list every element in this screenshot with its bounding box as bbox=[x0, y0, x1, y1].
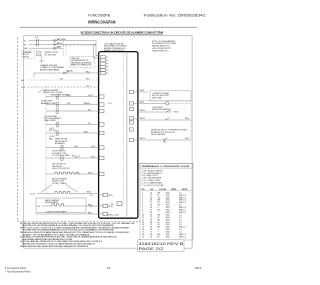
svg-text:19: 19 bbox=[142, 237, 144, 239]
svg-text:GY-1: GY-1 bbox=[74, 146, 78, 148]
relay contact on y73 bbox=[63, 72, 65, 74]
dashed separator right bbox=[139, 99, 191, 101]
svg-text:V-2: V-2 bbox=[88, 123, 91, 125]
svg-text:RD-8: RD-8 bbox=[88, 172, 92, 174]
svg-text:BK-9: BK-9 bbox=[88, 212, 92, 214]
power wire GND row bbox=[24, 45, 63, 50]
cooling fan note bbox=[44, 115, 62, 122]
console dashed boundary bottom bbox=[17, 221, 141, 223]
svg-text:W-11: W-11 bbox=[185, 118, 189, 120]
wire bend into board connector bbox=[95, 41, 97, 56]
svg-text:DE LA CAVIDAD: DE LA CAVIDAD bbox=[151, 133, 166, 136]
legend column headers bbox=[142, 188, 188, 191]
svg-text:HIGH LIMIT: HIGH LIMIT bbox=[152, 97, 163, 99]
legend table rows bbox=[142, 192, 186, 238]
fan-out diagonals bbox=[41, 185, 52, 193]
svg-text:BK/W-5: BK/W-5 bbox=[84, 103, 90, 105]
board inner dotted rail bbox=[122, 53, 124, 203]
probe note bbox=[55, 138, 68, 145]
svg-text:P2: P2 bbox=[106, 60, 108, 62]
svg-text:METAL IN APPLIANCE: METAL IN APPLIANCE bbox=[40, 68, 60, 71]
notes right of title bbox=[152, 40, 177, 53]
wire drops to note box bbox=[63, 41, 65, 56]
right wire row 1 bbox=[139, 90, 148, 92]
svg-text:BK-9: BK-9 bbox=[140, 102, 144, 104]
right note box 1 bbox=[150, 91, 191, 101]
svg-text:WIRE IN CONNECTION: WIRE IN CONNECTION bbox=[71, 65, 92, 67]
ground lead bbox=[41, 56, 43, 61]
svg-text:GY-1: GY-1 bbox=[91, 146, 95, 148]
svg-text:SE DEBE CONECTAR A UN CIRCUITO: SE DEBE CONECTAR A UN CIRCUITO DE ALAMBR… bbox=[81, 31, 164, 35]
svg-text:P4(1): P4(1) bbox=[108, 195, 113, 197]
svg-text:BK-1: BK-1 bbox=[86, 71, 90, 73]
bake coil row bbox=[37, 204, 99, 208]
svg-text:BK-12: BK-12 bbox=[140, 138, 145, 140]
board left pin boxes bbox=[99, 95, 104, 176]
right wire row 4 bbox=[139, 118, 191, 120]
svg-text:W-5: W-5 bbox=[67, 103, 70, 105]
svg-text:* Non-Illustrated Parts: * Non-Illustrated Parts bbox=[5, 270, 31, 274]
svg-text:105C: 105C bbox=[166, 237, 171, 239]
board right pin boxes bbox=[129, 90, 133, 141]
svg-text:PK-2: PK-2 bbox=[91, 156, 95, 158]
anti-tip note bbox=[38, 90, 43, 94]
svg-text:UNLOCK POSITION: UNLOCK POSITION bbox=[52, 168, 70, 170]
svg-text:P5: P5 bbox=[106, 70, 108, 72]
legend table box bbox=[140, 164, 193, 241]
stubs from right pins through edge bbox=[134, 92, 140, 140]
svg-text:P4: P4 bbox=[106, 67, 108, 69]
ground symbol bbox=[39, 61, 43, 63]
svg-text:L1-N: L1-N bbox=[30, 193, 35, 195]
svg-text:W: W bbox=[158, 237, 160, 239]
right wire row 3 bbox=[139, 110, 178, 114]
connector row 2 bbox=[41, 101, 99, 108]
svg-text:TERMINALES Y CODIGOS DE COLOR: TERMINALES Y CODIGOS DE COLOR bbox=[142, 165, 190, 168]
svg-text:WIRING DIAGRAM: WIRING DIAGRAM bbox=[88, 20, 116, 25]
terminal block dashed box bbox=[22, 50, 35, 58]
latch switch note bbox=[52, 163, 70, 170]
svg-text:DUAL SPEED: DUAL SPEED bbox=[44, 119, 57, 122]
legend notes bbox=[142, 169, 164, 186]
svg-text:P4(2): P4(2) bbox=[108, 206, 113, 208]
svg-text:KIT P/N 5303: KIT P/N 5303 bbox=[45, 54, 56, 56]
svg-text:DLB-BK: DLB-BK bbox=[66, 71, 74, 73]
svg-text:BK-10: BK-10 bbox=[140, 110, 145, 112]
svg-text:FGMC3065PB: FGMC3065PB bbox=[88, 14, 111, 18]
lower element box bbox=[36, 198, 86, 212]
console dashed boundary left bbox=[16, 38, 18, 222]
bottom row wire bbox=[35, 211, 99, 214]
connector row 4 bbox=[46, 122, 99, 127]
svg-text:OR-3: OR-3 bbox=[66, 95, 71, 97]
console dashed boundary top segment bbox=[62, 44, 96, 46]
svg-text:P1: P1 bbox=[106, 57, 108, 59]
board inner solid rail bbox=[126, 53, 128, 217]
connector row 7 with switch bbox=[46, 156, 99, 161]
svg-text:WIRES RATED 90 C: WIRES RATED 90 C bbox=[152, 49, 169, 52]
svg-text:BK-8: BK-8 bbox=[140, 90, 144, 92]
element fan-out note bbox=[52, 178, 68, 184]
svg-text:Publication No. 5995628342: Publication No. 5995628342 bbox=[144, 14, 206, 18]
svg-text:BK-6: BK-6 bbox=[87, 192, 91, 194]
right wire row 2 with motor bbox=[139, 101, 191, 141]
svg-text:PARA EL DISPOSITIVO: PARA EL DISPOSITIVO bbox=[104, 49, 125, 52]
svg-text:1-8: 1-8 bbox=[90, 195, 93, 197]
svg-text:318416210 REV B: 318416210 REV B bbox=[139, 242, 185, 246]
svg-text:OR-3: OR-3 bbox=[88, 95, 93, 97]
svg-text:0613: 0613 bbox=[195, 266, 202, 270]
svg-text:P3: P3 bbox=[106, 63, 108, 65]
right note 2 bbox=[152, 107, 171, 111]
power wire N bbox=[24, 43, 96, 47]
svg-text:P/N 316: P/N 316 bbox=[23, 56, 30, 58]
connector row 6 bbox=[46, 145, 99, 150]
svg-text:P4(3) - L4-N: P4(3) - L4-N bbox=[108, 214, 119, 216]
connector row 1 bbox=[46, 94, 99, 99]
control board outline bbox=[99, 52, 138, 219]
bottom notes block bbox=[20, 222, 135, 248]
svg-text:COLOR: COLOR bbox=[159, 189, 166, 191]
right wire row 5 bbox=[139, 138, 191, 143]
svg-text:W-5: W-5 bbox=[88, 109, 91, 111]
svg-text:DL-W: DL-W bbox=[57, 43, 62, 45]
convection fan note bbox=[49, 136, 55, 140]
svg-text:OUTER - INNER: OUTER - INNER bbox=[52, 183, 67, 185]
svg-text:# Functional Parts: # Functional Parts bbox=[5, 266, 27, 270]
bake element row bbox=[30, 191, 99, 195]
svg-text:MOTOR: MOTOR bbox=[49, 130, 57, 132]
board pin ladder labels bbox=[106, 57, 108, 75]
notes above board bbox=[104, 42, 127, 52]
fuse box bbox=[37, 52, 41, 56]
svg-text:PK-2: PK-2 bbox=[72, 156, 76, 158]
svg-text:BR-4: BR-4 bbox=[84, 131, 88, 133]
svg-text:FAN: FAN bbox=[49, 137, 53, 140]
svg-text:P6: P6 bbox=[106, 73, 108, 75]
svg-text:W-12: W-12 bbox=[185, 138, 189, 140]
board bottom interior pins bbox=[90, 193, 122, 216]
svg-text:CONVECTION ELEMENT: CONVECTION ELEMENT bbox=[45, 211, 68, 213]
header rule bbox=[20, 26, 197, 28]
svg-text:W-10: W-10 bbox=[174, 112, 178, 114]
svg-text:DLCR-BK: DLCR-BK bbox=[57, 39, 66, 41]
main frame bbox=[24, 36, 192, 249]
svg-text:ASSEMBLY: ASSEMBLY bbox=[55, 142, 66, 145]
power wire L1 bbox=[24, 37, 96, 42]
svg-text:WIRING ERRORS CAN CAUSE IMPROP: WIRING ERRORS CAN CAUSE IMPROPER AND DAN… bbox=[20, 245, 89, 248]
part number box bbox=[138, 240, 185, 252]
svg-text:7. V = VIOLET / VIOLETA: 7. V = VIOLET / VIOLETA bbox=[142, 184, 164, 187]
svg-text:CAV: CAV bbox=[57, 45, 62, 48]
connector row 3 bbox=[46, 109, 99, 114]
svg-text:BK-11: BK-11 bbox=[140, 118, 145, 120]
lock motor note bbox=[49, 128, 57, 132]
svg-text:SEE 2-1: SEE 2-1 bbox=[179, 237, 186, 239]
legend title strip bbox=[140, 164, 193, 169]
note dashed box top middle bbox=[70, 56, 94, 67]
svg-text:TEMP: TEMP bbox=[171, 189, 177, 191]
right long note bbox=[151, 129, 188, 136]
svg-text:PAGE 2/2: PAGE 2/2 bbox=[139, 247, 164, 251]
vertical dotted bus bbox=[45, 87, 47, 195]
svg-text:16: 16 bbox=[150, 237, 152, 239]
connector row 5 bbox=[46, 131, 99, 136]
svg-text:1-1: 1-1 bbox=[90, 206, 93, 208]
svg-text:GB: GB bbox=[24, 48, 28, 50]
svg-text:-19-: -19- bbox=[106, 266, 111, 270]
broil element bbox=[46, 172, 99, 174]
door switch note bbox=[52, 151, 70, 157]
wire row y73 bbox=[34, 72, 99, 74]
svg-text:NOTE: NOTE bbox=[182, 189, 188, 191]
board pin ladder top-left bbox=[100, 56, 105, 75]
